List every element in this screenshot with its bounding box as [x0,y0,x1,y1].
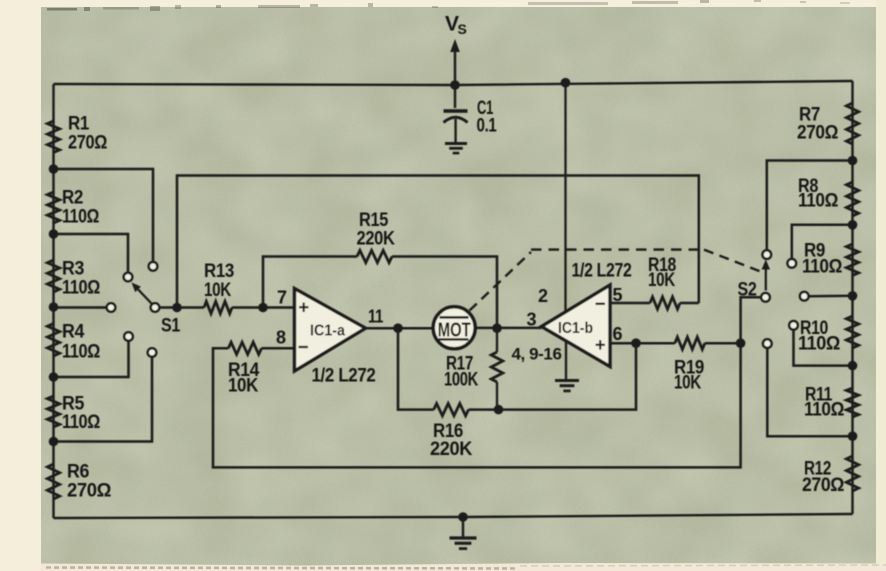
svg-text:270Ω: 270Ω [67,481,111,502]
svg-text:S2: S2 [738,280,757,301]
svg-text:110Ω: 110Ω [62,207,99,228]
svg-text:10K: 10K [228,376,259,397]
svg-text:5: 5 [613,285,623,305]
svg-text:R6: R6 [67,462,89,483]
svg-text:110Ω: 110Ω [62,342,100,363]
svg-text:220K: 220K [357,229,396,250]
svg-text:1/2 L272: 1/2 L272 [312,366,376,387]
svg-text:R3: R3 [62,259,84,280]
svg-text:110Ω: 110Ω [798,191,838,212]
svg-text:4, 9-16: 4, 9-16 [512,345,562,364]
svg-text:8: 8 [276,328,286,348]
svg-text:110Ω: 110Ω [804,400,844,421]
svg-text:270Ω: 270Ω [802,475,844,496]
svg-text:R1: R1 [68,114,90,135]
svg-text:110Ω: 110Ω [802,257,842,278]
svg-text:10K: 10K [648,270,676,291]
svg-text:R13: R13 [204,261,234,282]
svg-text:2: 2 [538,286,548,306]
svg-text:S: S [458,21,467,37]
svg-text:3: 3 [527,310,537,330]
svg-text:11: 11 [368,307,383,327]
svg-text:7: 7 [277,288,287,308]
svg-text:IC1-b: IC1-b [558,320,593,337]
svg-text:270Ω: 270Ω [68,133,107,154]
svg-text:0.1: 0.1 [477,116,498,137]
svg-text:100K: 100K [444,370,479,391]
svg-text:110Ω: 110Ω [62,412,100,433]
svg-text:10K: 10K [204,280,232,301]
svg-text:IC1-a: IC1-a [310,323,345,340]
svg-text:220K: 220K [430,439,473,460]
svg-text:1/2 L272: 1/2 L272 [572,261,632,282]
svg-text:10K: 10K [674,373,702,394]
svg-text:110Ω: 110Ω [62,278,100,299]
svg-text:S1: S1 [161,316,181,337]
svg-text:6: 6 [613,324,623,344]
svg-text:R4: R4 [62,322,85,343]
svg-text:270Ω: 270Ω [797,123,838,144]
svg-text:110Ω: 110Ω [798,334,840,355]
svg-text:MOT: MOT [438,319,471,342]
svg-text:R2: R2 [62,188,83,209]
